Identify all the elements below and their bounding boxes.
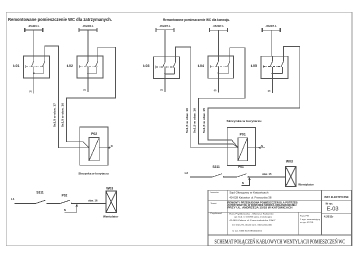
wire F3 to switch bbox=[164, 30, 166, 57]
svg-text:INST. ELEKTRYCZNE: INST. ELEKTRYCZNE bbox=[324, 195, 348, 199]
svg-text:Projektował: Projektował bbox=[210, 212, 222, 215]
svg-text:N: N bbox=[111, 145, 113, 148]
relay P01 enclosure bbox=[227, 127, 255, 165]
wire stub below L03 to lamp bbox=[164, 74, 166, 92]
svg-text:Remontowane pomieszczenie WC d: Remontowane pomieszczenie WC dla zatrzym… bbox=[8, 17, 112, 22]
svg-text:L2: L2 bbox=[185, 171, 189, 175]
relay P02 enclosure bbox=[80, 127, 108, 165]
svg-text:5x1,5 w obw. 16: 5x1,5 w obw. 16 bbox=[194, 107, 197, 133]
svg-text:5x1,5 w obw. 16: 5x1,5 w obw. 16 bbox=[62, 102, 65, 127]
wire stub below L01 to lamp bbox=[33, 73, 35, 93]
svg-text:Ł04: Ł04 bbox=[198, 64, 204, 68]
wire F1 to switch bbox=[33, 30, 35, 56]
svg-text:obw. 16: obw. 16 bbox=[88, 199, 98, 203]
svg-text:tel. 032-271-00-00 kom. 0601-0: tel. 032-271-00-00 kom. 0601-000-000 bbox=[232, 224, 273, 227]
contact P01a bbox=[237, 174, 249, 178]
svg-text:1 egz. zamawiający: 1 egz. zamawiający bbox=[300, 219, 321, 221]
motor fan W03 bbox=[286, 166, 297, 186]
switch L02 box bbox=[77, 56, 103, 78]
svg-text:W03: W03 bbox=[286, 159, 293, 163]
wire N feed right bbox=[242, 179, 250, 185]
svg-text:N: N bbox=[64, 208, 66, 212]
svg-text:(1): (1) bbox=[83, 90, 86, 92]
wire N feed left bbox=[65, 206, 77, 212]
title block texts bbox=[210, 191, 222, 215]
svg-text:-05xW7.1.: -05xW7.1. bbox=[265, 25, 277, 28]
svg-text:S311: S311 bbox=[213, 165, 220, 169]
wire stub below L05 to lamp bbox=[271, 73, 273, 93]
title block grid bbox=[208, 190, 352, 246]
contact S311a bbox=[36, 200, 48, 204]
svg-text:(1): (1) bbox=[160, 90, 163, 92]
wire bottom-left circuit bbox=[15, 202, 106, 204]
svg-text:P02: P02 bbox=[91, 132, 97, 136]
node feed F4 bbox=[209, 28, 227, 32]
svg-text:41-800 Zabrze ul. Franciszkańs: 41-800 Zabrze ul. Franciszkańska 19b/7 bbox=[229, 219, 276, 222]
switch L03 box bbox=[154, 57, 180, 79]
wire P02 output to N bbox=[99, 147, 111, 149]
svg-text:SCHEMAT POŁĄCZEŃ KABLOWYCH WEN: SCHEMAT POŁĄCZEŃ KABLOWYCH WENTYLACJI PO… bbox=[215, 238, 346, 246]
svg-text:P02: P02 bbox=[62, 194, 68, 198]
svg-text:P01: P01 bbox=[238, 165, 244, 169]
svg-text:(2): (2) bbox=[268, 91, 271, 93]
svg-text:-05xW7.1.: -05xW7.1. bbox=[213, 25, 225, 28]
relay P02 coil bbox=[89, 138, 99, 161]
svg-text:upr. bud. nr 415/94 specj. in: upr. bud. nr 415/94 specj. instalacyjna bbox=[234, 216, 273, 219]
switch L01 box bbox=[24, 56, 50, 78]
wire bottom-right circuit bbox=[190, 176, 286, 178]
wire F5 to switch bbox=[270, 30, 272, 56]
wire stub below L02 to lamp bbox=[87, 73, 89, 92]
svg-text:Sąd Okręgowy w Katowicach: Sąd Okręgowy w Katowicach bbox=[229, 190, 268, 194]
svg-text:4.2011r: 4.2011r bbox=[324, 215, 334, 219]
svg-text:40-028 Katowice ul. Francuska: 40-028 Katowice ul. Francuska 38 bbox=[229, 196, 271, 200]
svg-text:(1): (1) bbox=[29, 91, 32, 93]
node feed F1 bbox=[25, 28, 43, 32]
svg-text:nr upr. 477/01: nr upr. 477/01 bbox=[300, 221, 314, 224]
wire P01 output to N bbox=[247, 147, 265, 149]
switch L04 box bbox=[208, 56, 234, 78]
node feed F2 bbox=[79, 28, 97, 32]
svg-text:5x1,5 w obw. 17: 5x1,5 w obw. 17 bbox=[53, 102, 56, 127]
contact S311b bbox=[213, 174, 225, 178]
svg-text:Faza PW: Faza PW bbox=[300, 216, 310, 218]
node feed F5 bbox=[262, 28, 280, 32]
wire stub below L04 to lamp bbox=[217, 73, 219, 92]
motor fan W03 bbox=[106, 191, 117, 213]
svg-text:Ł03: Ł03 bbox=[143, 64, 149, 68]
svg-text:Skrzynka w korytarzu: Skrzynka w korytarzu bbox=[78, 172, 108, 176]
svg-text:P01: P01 bbox=[240, 132, 246, 136]
svg-text:(2): (2) bbox=[214, 90, 217, 92]
wire L01 to P02 bbox=[45, 46, 89, 148]
svg-text:obw. 15: obw. 15 bbox=[262, 172, 272, 176]
svg-text:N: N bbox=[242, 181, 244, 185]
svg-text:-05xW7.1.: -05xW7.1. bbox=[159, 25, 171, 28]
wire F4 to switch bbox=[217, 30, 219, 56]
svg-text:Inwestor: Inwestor bbox=[210, 191, 219, 194]
wire L02 to P02 bbox=[67, 47, 116, 148]
switch L05 box bbox=[261, 56, 288, 78]
svg-text:W03: W03 bbox=[106, 186, 113, 190]
svg-text:-05xW3.1.: -05xW3.1. bbox=[82, 25, 94, 28]
svg-text:Wentylator: Wentylator bbox=[298, 182, 314, 186]
node feed F3 bbox=[156, 28, 174, 32]
svg-text:nr ew. KIIB SLK/IE/0000/01: nr ew. KIIB SLK/IE/0000/01 bbox=[232, 230, 263, 233]
svg-text:-05xW3.1.: -05xW3.1. bbox=[28, 25, 40, 28]
svg-text:N: N bbox=[261, 145, 263, 148]
wire F2 to switch bbox=[87, 30, 89, 56]
svg-text:Remontowane pomieszczenie WC d: Remontowane pomieszczenie WC dla konwoju… bbox=[163, 18, 230, 22]
wire L04 to P01 bbox=[198, 48, 245, 148]
svg-text:Ł01: Ł01 bbox=[13, 64, 19, 68]
svg-text:Nr rys.: Nr rys. bbox=[326, 203, 334, 206]
svg-text:L1: L1 bbox=[11, 197, 15, 201]
wire L03 to P01 bbox=[176, 47, 239, 148]
svg-text:Ewa Frydkowska - Mariusz Kubar: Ewa Frydkowska - Mariusz Kubarski bbox=[229, 212, 274, 215]
wire L05 to P01 bbox=[208, 47, 300, 148]
svg-text:Wentylator: Wentylator bbox=[103, 214, 119, 218]
svg-text:Skrzynka w korytarzu: Skrzynka w korytarzu bbox=[227, 119, 262, 123]
contact P02a bbox=[60, 200, 72, 204]
svg-text:S311: S311 bbox=[36, 191, 43, 195]
svg-text:Ł02: Ł02 bbox=[67, 64, 73, 68]
svg-text:E-03: E-03 bbox=[327, 207, 339, 213]
relay P01 coil bbox=[238, 138, 247, 161]
svg-text:Temat: Temat bbox=[210, 202, 216, 205]
svg-text:Ł05: Ł05 bbox=[251, 64, 257, 68]
svg-text:5x1,5 w obw. 15: 5x1,5 w obw. 15 bbox=[203, 107, 206, 133]
svg-text:PRZY UL. ANDRZEJA 15/18 W KATO: PRZY UL. ANDRZEJA 15/18 W KATOWICACH bbox=[228, 207, 293, 210]
svg-text:5x1,5 w obw. 16: 5x1,5 w obw. 16 bbox=[186, 107, 189, 133]
